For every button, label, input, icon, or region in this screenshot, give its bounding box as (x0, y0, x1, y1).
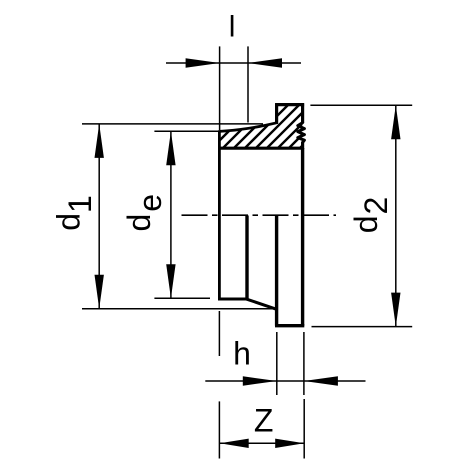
serrated sealing face (298, 123, 305, 143)
ext line d2 top (310, 104, 412, 106)
sleeve bottom edge (218, 298, 247, 301)
ext line Z left upper (218, 311, 220, 356)
arrow d1 top (points up) (95, 124, 104, 158)
hatching (flange collar section) (211, 104, 344, 149)
arrow h left (points right, tip at 276.8) (243, 376, 277, 385)
arrow Z right (points right, tip at 304.2) (275, 439, 304, 448)
arrow d1 bottom (points down) (95, 275, 104, 309)
chamfer (cone silhouette) (246, 299, 277, 310)
step left edge (275, 103, 278, 124)
ext line Z left lower (218, 401, 220, 458)
dim line d1 (98, 124, 100, 309)
inner edge line 1 (cylinder-cone transition) (245, 216, 248, 300)
svg-text:l: l (229, 11, 236, 44)
arrow Z left (points left, tip at 219.7) (220, 439, 249, 448)
ext line h left (276, 332, 278, 395)
arrow d2 top (points up) (391, 105, 400, 139)
ext line d2 bottom (312, 326, 413, 328)
arrow l right (points left, tip at ext 248) (248, 58, 282, 67)
ext line Z right (303, 399, 305, 459)
arrow l left (points right, tip at ext 219.6) (186, 58, 220, 67)
ext line l left (219, 46, 221, 130)
arrow de bottom (points down) (166, 264, 175, 298)
taper top edge (cone outer surface) (219, 123, 276, 132)
dim line de (170, 131, 172, 298)
thin dimension / extension lines (82, 46, 412, 458)
right wall (flange face side) (301, 148, 304, 326)
left wall (pipe outer surface) (218, 130, 221, 299)
svg-text:h: h (233, 335, 251, 371)
ext line de bottom (154, 297, 210, 299)
arrowheads (95, 58, 401, 448)
flange collar outline (section) (218, 103, 304, 326)
ext line d1 bottom (82, 308, 277, 310)
arrow de top (points up) (166, 131, 175, 165)
ext line de top (154, 130, 219, 132)
dim line Z (220, 442, 305, 444)
flange bottom edge (218, 147, 304, 150)
dim line d2 (395, 105, 397, 326)
inner edge line 2 (flange ring left face) (275, 216, 278, 326)
flange right edge upper (above serration) (301, 103, 304, 123)
tube bottom edge (275, 324, 304, 327)
arrow d2 bottom (points down) (391, 293, 400, 327)
ext line l right (247, 46, 249, 122)
ext line h right (303, 332, 305, 395)
dim line h (205, 380, 365, 382)
centerline (axis) (182, 214, 337, 216)
ext line d1 top (82, 123, 263, 125)
svg-text:Z: Z (254, 403, 274, 439)
arrow h right (points left, tip at 303.9) (304, 376, 338, 385)
flange right edge lower (below serration) (301, 142, 304, 149)
step top edge (flange OD) (275, 103, 304, 106)
dim line l (166, 62, 301, 64)
